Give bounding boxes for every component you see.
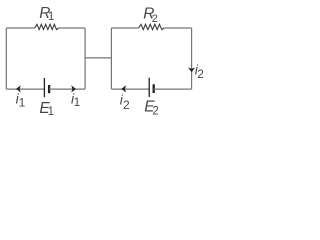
arrow i1 left (pointing left) [16,85,21,92]
wire: right loop right vertical [191,28,193,89]
svg-text:1: 1 [48,11,54,23]
arrow i2 down (on right vertical wire) [188,68,195,73]
svg-text:2: 2 [123,98,130,112]
wire: left loop right vertical [84,28,86,89]
wire: right loop top left segment [111,27,138,29]
battery E1 short plate [48,85,50,93]
wire: left loop top left segment [6,27,35,29]
resistor R1 [35,24,59,29]
wire: right loop bottom left segment [111,88,149,90]
battery E1 long plate [43,78,45,97]
svg-text:2: 2 [197,67,204,81]
svg-text:2: 2 [152,105,158,117]
wire: left loop left vertical [5,28,7,89]
wire: right loop bottom right segment [154,88,192,90]
wire: left loop bottom left segment [6,88,44,90]
arrow i1 right (pointing right) [71,85,76,92]
svg-text:2: 2 [152,13,158,25]
svg-text:1: 1 [48,106,54,118]
svg-text:1: 1 [19,96,26,110]
wire: left loop bottom right segment [49,88,85,90]
svg-text:1: 1 [74,95,81,109]
resistor R2 [139,24,165,29]
battery E2 short plate [153,84,155,93]
wire: right loop left vertical [110,28,112,89]
wire: left loop top right segment [59,27,85,29]
battery E2 long plate [148,78,150,97]
arrow i2 left (pointing left) [121,85,126,92]
wire: connector between loops [85,57,111,59]
wire: right loop top right segment [164,27,192,29]
